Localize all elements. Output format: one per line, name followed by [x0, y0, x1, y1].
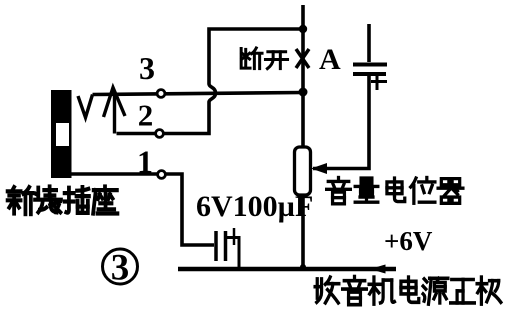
svg-text:2: 2 — [138, 98, 154, 133]
svg-text:1: 1 — [137, 144, 153, 180]
svg-text:3: 3 — [139, 50, 155, 86]
svg-text:3: 3 — [111, 248, 130, 289]
svg-text:+6V: +6V — [384, 226, 433, 256]
svg-text:A: A — [319, 43, 341, 76]
svg-text:6V100µF: 6V100µF — [196, 190, 313, 223]
